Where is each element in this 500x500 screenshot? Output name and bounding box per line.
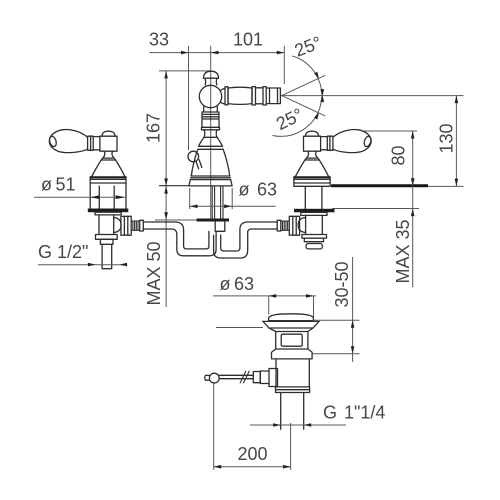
- angle arc: [273, 56, 322, 136]
- taper: [269, 328, 313, 332]
- ext lines dia63: [190, 188, 233, 209]
- ext lines: [269, 296, 314, 320]
- ext handle top: [364, 130, 417, 132]
- ray 25 down: [282, 96, 326, 116]
- collar 1: [302, 235, 327, 239]
- svg-text:63: 63: [234, 274, 254, 294]
- swivel sphere: [199, 85, 221, 107]
- tailpipe: [281, 393, 304, 430]
- flange: [263, 321, 319, 328]
- hub: [321, 137, 328, 150]
- svg-text:30-50: 30-50: [332, 261, 352, 307]
- valve body below: [306, 215, 323, 234]
- svg-text:1"1/4: 1"1/4: [344, 403, 385, 423]
- inner shank: [305, 186, 322, 208]
- section 2: [256, 88, 264, 104]
- egg cap: [363, 135, 372, 147]
- base band: [90, 179, 126, 183]
- bell flare 2: [191, 149, 229, 176]
- deck bottom ext right: [332, 208, 419, 210]
- lever rings: [327, 136, 333, 151]
- dome base line: [269, 320, 314, 322]
- rod nub: [205, 375, 210, 380]
- right pipe outer: [221, 222, 278, 251]
- left pipe outer: [143, 222, 209, 249]
- bonnet cone: [91, 160, 125, 178]
- clamp nut: [215, 222, 225, 232]
- bell band: [198, 146, 222, 149]
- dim line dia63 drain: [213, 295, 316, 297]
- valve ball body: [304, 136, 321, 151]
- shoulder: [272, 349, 313, 359]
- valve ball body: [100, 136, 117, 151]
- bonnet cone: [295, 160, 329, 178]
- deck bottom line center (max50): [155, 219, 197, 221]
- svg-text:MAX 35: MAX 35: [393, 219, 413, 283]
- svg-text:MAX 50: MAX 50: [144, 241, 164, 305]
- boss mid block: [260, 371, 269, 384]
- dim line 200: [214, 466, 291, 468]
- tip section: [266, 88, 280, 104]
- left pipe inner: [143, 229, 216, 256]
- bell rings: [191, 176, 231, 180]
- rod boss: [269, 369, 278, 387]
- sub flange: [301, 212, 327, 215]
- dim line 130: [455, 96, 457, 187]
- svg-text:51: 51: [56, 175, 76, 195]
- svg-text:ø: ø: [239, 180, 250, 200]
- outlet bulge: [114, 218, 121, 233]
- ring 3: [263, 87, 266, 105]
- body tube: [276, 359, 309, 387]
- svg-text:130: 130: [437, 123, 457, 153]
- svg-text:80: 80: [389, 145, 409, 165]
- lever egg: [49, 130, 87, 153]
- outlet ribs: [131, 221, 140, 230]
- knob stem: [196, 160, 202, 169]
- finial dome: [204, 71, 219, 78]
- dim 30-50 line: [352, 257, 354, 362]
- finial neck: [205, 78, 217, 85]
- end cap: [306, 244, 322, 249]
- bottom nut: [276, 387, 310, 393]
- ext line spout top: [159, 70, 211, 72]
- hub: [93, 137, 100, 150]
- outlet collar: [277, 220, 281, 231]
- outlet nut: [289, 216, 299, 235]
- ext lines 30-50: [312, 320, 359, 354]
- ext 200 right / centerline: [290, 423, 292, 470]
- valve body below: [99, 215, 114, 235]
- right pipe inner: [214, 229, 278, 258]
- svg-text:ø: ø: [41, 175, 52, 195]
- inner shank: [99, 186, 114, 208]
- deck line right thick: [331, 184, 428, 187]
- arrow 33 left (outside, tip at ext1): [181, 51, 189, 55]
- ring stack: [202, 112, 219, 119]
- thread shank: [102, 244, 112, 268]
- dim line G1/2: [38, 264, 127, 266]
- overflow window: [281, 334, 302, 346]
- svg-text:101: 101: [233, 30, 263, 50]
- barrel: [228, 87, 252, 104]
- base cylinder sides: [90, 177, 126, 209]
- concave neck: [204, 130, 217, 138]
- ext line knob: [188, 46, 190, 150]
- ring 2: [252, 87, 256, 105]
- outlet ribs: [281, 221, 290, 230]
- block 2: [304, 238, 323, 242]
- svg-text:200: 200: [238, 444, 268, 464]
- dome cap: [269, 314, 314, 321]
- rod: [220, 375, 254, 378]
- neck: [104, 151, 112, 156]
- dim line 167 / MAX50: [165, 71, 167, 307]
- body box: [276, 332, 308, 350]
- egg cap: [48, 135, 57, 147]
- ext 200 left: [213, 383, 215, 470]
- dim line 33/101: [150, 52, 285, 54]
- deck top segment left of bell: [159, 185, 189, 187]
- dim line dia63: [190, 205, 276, 207]
- sub flange: [95, 212, 121, 215]
- svg-text:G 1/2": G 1/2": [38, 242, 88, 262]
- collar: [101, 156, 115, 160]
- pull knob: [188, 151, 199, 162]
- barrel bulge: [202, 119, 219, 127]
- band: [202, 127, 220, 130]
- washer: [294, 209, 335, 213]
- ext line / centerline spout axis: [210, 46, 212, 219]
- clevis: [253, 372, 260, 383]
- svg-text:33: 33: [149, 30, 169, 50]
- collar 1: [96, 235, 118, 240]
- ray 25 up: [282, 75, 326, 95]
- lever rings: [88, 136, 94, 151]
- washer: [88, 209, 129, 213]
- basin line left: [216, 327, 263, 329]
- valve dome: [102, 131, 115, 136]
- arc arrowheads: [314, 72, 319, 79]
- arrow 33/101 shared at spout axis: [211, 51, 219, 55]
- block 2: [100, 239, 113, 244]
- base cylinder sides: [294, 177, 330, 187]
- rod break: [240, 371, 249, 383]
- dim line 80 / MAX35: [412, 131, 414, 288]
- dim line G11/4: [250, 424, 346, 426]
- rod ball: [209, 373, 219, 383]
- valve dome: [306, 131, 319, 136]
- outlet nut: [121, 216, 131, 235]
- lever egg: [333, 130, 371, 153]
- outlet collar: [140, 220, 144, 231]
- dim line dia51: [34, 196, 125, 198]
- arm neck: [221, 88, 226, 104]
- deck ext thin to 130: [428, 185, 464, 187]
- collar: [305, 156, 319, 160]
- arrow 101 right: [277, 51, 285, 55]
- spout shank below deck: [212, 186, 223, 219]
- svg-text:G: G: [323, 403, 337, 423]
- base band: [294, 179, 330, 183]
- neck below sphere: [204, 107, 218, 113]
- skirt: [189, 180, 232, 186]
- svg-text:63: 63: [257, 180, 277, 200]
- ring 1: [225, 87, 228, 105]
- ray horizontal / ext for 130: [281, 95, 464, 97]
- outlet bulge: [298, 218, 305, 233]
- ext line spout tip: [283, 46, 285, 84]
- neck: [308, 151, 316, 156]
- bell flare 1: [199, 137, 223, 146]
- svg-text:ø: ø: [220, 274, 231, 294]
- horseshoe bracket: [197, 219, 229, 222]
- svg-text:167: 167: [144, 113, 164, 143]
